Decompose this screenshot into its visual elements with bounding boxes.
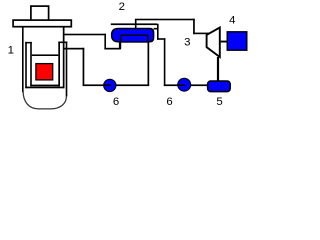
- sample box left wall: [30, 42, 32, 86]
- exchanger lid line: [111, 23, 158, 25]
- vessel V1 outer wall left: [22, 27, 24, 92]
- pump P6 right: [178, 78, 191, 91]
- sample box bottom: [30, 85, 60, 87]
- wire right: [157, 38, 165, 40]
- tank T5: [208, 81, 231, 92]
- liquid level line: [32, 54, 59, 56]
- exchanger right stub: [154, 28, 159, 30]
- vessel V1 cap: [31, 6, 49, 20]
- svg-text:6: 6: [166, 96, 172, 108]
- wire down to bottom loop: [164, 38, 166, 86]
- pump P6 left: [104, 79, 116, 91]
- exchanger E2 tube bundle: [121, 35, 148, 42]
- svg-text:5: 5: [216, 96, 222, 108]
- pump P6 right shaft: [178, 84, 186, 86]
- sample box right wall: [58, 42, 60, 87]
- pipe vessel lower outlet: [64, 48, 84, 50]
- beaker rim hook: [25, 42, 32, 44]
- wire stub up to tube left: [119, 42, 121, 49]
- wire down: [157, 24, 159, 40]
- vessel V1 rounded bottom arc: [23, 92, 66, 109]
- riser tube right to exchanger: [148, 42, 150, 86]
- fan cone F3: [207, 28, 220, 58]
- pipe tank top: [217, 57, 219, 82]
- pump P6 left shaft: [104, 84, 112, 86]
- svg-text:6: 6: [113, 96, 119, 108]
- motor link: [221, 41, 228, 43]
- red heater block: [36, 64, 53, 80]
- wire down: [104, 34, 106, 50]
- wire down to loop: [83, 48, 85, 86]
- svg-text:4: 4: [229, 15, 235, 27]
- wire under exchanger: [104, 48, 121, 50]
- beaker bottom: [25, 87, 64, 89]
- svg-text:2: 2: [119, 1, 125, 13]
- motor M4: [227, 32, 247, 50]
- pipe exchanger top up: [135, 19, 137, 28]
- bottom loop pipe right: [164, 84, 209, 86]
- svg-text:3: 3: [184, 37, 190, 49]
- wire right to fan: [193, 33, 209, 35]
- wire down at right: [193, 19, 195, 35]
- vessel V1 outer wall right: [66, 42, 68, 97]
- bottom loop pipe left: [83, 84, 150, 86]
- wire stub into fan: [208, 33, 210, 36]
- top right link: [58, 42, 67, 44]
- vessel V1 inner wall right (beaker right): [63, 27, 65, 88]
- beaker left wall: [25, 42, 27, 88]
- svg-text:1: 1: [8, 44, 14, 56]
- pipe vessel to exchanger (tube inlet): [64, 34, 106, 36]
- vessel V1 flange: [13, 20, 71, 27]
- exchanger E2 shell: [112, 29, 154, 42]
- top pipe horizontal: [135, 19, 195, 21]
